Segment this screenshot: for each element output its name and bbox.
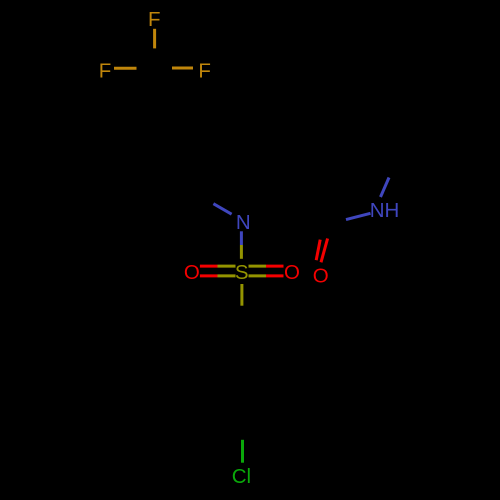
bond S=O1 lower line red half: [200, 274, 218, 277]
bond C-F2 gold half: [114, 67, 137, 70]
bond S=O2 upper line olive half: [249, 265, 267, 268]
svg-text:F: F: [148, 8, 161, 31]
bond Caryl2-Cl green half: [241, 440, 244, 463]
svg-text:N: N: [236, 211, 251, 234]
svg-text:NH: NH: [370, 199, 400, 222]
bond N-S olive half: [240, 245, 243, 259]
svg-text:S: S: [235, 261, 249, 284]
svg-text:O: O: [284, 261, 300, 284]
svg-text:F: F: [99, 59, 112, 82]
bond C-F1 gold half: [153, 29, 156, 49]
svg-text:O: O: [184, 261, 200, 284]
svg-text:F: F: [198, 59, 211, 82]
bond NH-CH2 blue half (up-right): [381, 178, 390, 198]
bond S=O1 upper line red half: [200, 265, 218, 268]
bond Caryl-N blue half: [213, 204, 231, 215]
bond S=O2 lower line olive half: [249, 274, 267, 277]
svg-text:O: O: [313, 265, 329, 288]
bond C=O3 left line red half: [316, 240, 320, 261]
bond S=O1 upper line olive half: [218, 265, 236, 268]
bond N-S blue half: [240, 231, 243, 245]
svg-text:Cl: Cl: [232, 465, 251, 488]
bond C=O3 right line red half: [321, 239, 328, 263]
bond S=O2 lower line red half: [266, 274, 284, 277]
bond S-Caryl2 olive half (to chlorophenyl ring): [240, 284, 243, 306]
bond S=O1 lower line olive half: [218, 274, 236, 277]
bond NH-C(=O) blue half (down-left): [346, 213, 371, 219]
bond C-F3 gold half: [172, 67, 193, 70]
bond S=O2 upper line red half: [266, 265, 284, 268]
